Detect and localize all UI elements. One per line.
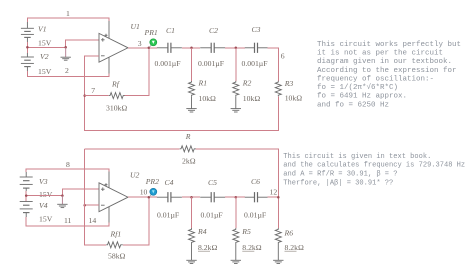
svg-text:C2: C2: [209, 26, 218, 35]
wire Rf1 vertical tap: [123, 197, 149, 245]
resistor R4: [189, 228, 195, 260]
node 3 junction dot: [148, 47, 151, 50]
resistor R1: [189, 81, 195, 109]
svg-text:fo = 1/(2π*√6*R*C): fo = 1/(2π*√6*R*C): [317, 82, 398, 92]
svg-text:This circuit is given in text: This circuit is given in text book.: [283, 153, 431, 161]
svg-text:R6: R6: [284, 229, 294, 238]
wire R2 top: [235, 48, 237, 81]
svg-text:11: 11: [64, 216, 72, 225]
svg-text:PR2: PR2: [145, 177, 159, 186]
svg-text:C5: C5: [208, 178, 217, 187]
svg-text:frequency of oscillation:-: frequency of oscillation:-: [317, 75, 434, 83]
svg-text:8.2kΩ: 8.2kΩ: [198, 243, 217, 252]
comment text block top: [317, 41, 461, 110]
battery V1: [21, 22, 34, 42]
capacitor C1: [157, 43, 182, 53]
svg-text:6: 6: [281, 52, 285, 61]
svg-text:V1: V1: [38, 25, 47, 34]
resistor Rf: [109, 93, 125, 99]
svg-text:0.01µF: 0.01µF: [201, 210, 223, 219]
svg-text:R1: R1: [198, 79, 208, 88]
svg-text:V4: V4: [39, 201, 48, 210]
svg-text:310kΩ: 310kΩ: [106, 103, 127, 112]
node 5 junction dot: [235, 47, 238, 50]
ground under R1: [186, 109, 196, 112]
svg-text:15V: 15V: [38, 67, 52, 76]
wire net 8 top rail: [26, 169, 109, 172]
wire R 2k top path: [85, 148, 180, 150]
svg-text:0.001µF: 0.001µF: [242, 59, 268, 68]
capacitor C5: [200, 192, 225, 202]
battery V3: [20, 172, 33, 191]
svg-text:8.2kΩ: 8.2kΩ: [242, 243, 261, 252]
svg-text:14: 14: [89, 216, 97, 225]
wire output U1: [128, 47, 157, 49]
svg-text:U2: U2: [130, 170, 140, 179]
svg-text:10: 10: [140, 188, 148, 197]
svg-text:0.001µF: 0.001µF: [198, 59, 224, 68]
node 12 junction dot: [277, 196, 280, 199]
svg-text:This circuit works perfectly b: This circuit works perfectly but: [317, 41, 461, 49]
wire ladder segment 1 bottom: [182, 196, 200, 198]
ground near U1: [61, 47, 71, 60]
ground under R5: [231, 260, 241, 263]
wire plus input U2: [62, 189, 99, 195]
svg-text:3: 3: [138, 39, 142, 48]
resistor R6: [275, 228, 281, 260]
svg-text:R3: R3: [284, 79, 294, 88]
wire R1 top: [191, 48, 193, 81]
wire inverting input U1: [85, 56, 279, 131]
probe PR1: [149, 39, 157, 48]
svg-text:12: 12: [270, 187, 278, 196]
resistor R5: [233, 228, 239, 260]
svg-text:C3: C3: [252, 25, 261, 34]
svg-text:and fo = 6250 Hz: and fo = 6250 Hz: [317, 101, 389, 109]
ground near U2: [57, 196, 67, 208]
comment text block bottom: [283, 153, 465, 187]
svg-text:10kΩ: 10kΩ: [243, 94, 261, 103]
wire Rf vertical tap: [125, 48, 149, 96]
node junction dot: [26, 46, 29, 49]
wire ladder to node 12: [268, 197, 279, 228]
node 4 junction dot: [190, 47, 193, 50]
wire ladder to node 6: [268, 48, 279, 81]
capacitor C3: [245, 43, 268, 53]
svg-text:R5: R5: [241, 227, 251, 236]
ground under R2: [231, 109, 241, 112]
svg-text:it is not as per the circuit: it is not as per the circuit: [317, 50, 443, 58]
svg-text:and the calculates frequency i: and the calculates frequency is 729.3748…: [283, 162, 465, 170]
node junction dot: [61, 194, 64, 197]
node junction dot: [25, 194, 28, 197]
svg-text:0.01µF: 0.01µF: [244, 210, 266, 219]
capacitor C2: [200, 43, 225, 53]
resistor Rf1: [106, 242, 123, 248]
svg-text:C1: C1: [166, 26, 175, 35]
wire Rf left: [85, 95, 109, 97]
svg-text:0.001µF: 0.001µF: [155, 59, 181, 68]
svg-text:2: 2: [65, 66, 69, 75]
wire R4 top: [191, 197, 193, 228]
wire net 11/14 bottom rail: [26, 217, 109, 226]
battery V4: [20, 202, 33, 218]
svg-text:8: 8: [66, 160, 70, 169]
svg-text:1: 1: [66, 9, 70, 18]
svg-text:R: R: [185, 132, 191, 141]
wire plus input U1: [66, 40, 100, 48]
wire battery mid bottom: [25, 191, 27, 202]
svg-text:V2: V2: [40, 52, 49, 61]
resistor R: [180, 146, 196, 152]
svg-text:R2: R2: [242, 79, 252, 88]
svg-text:8.2kΩ: 8.2kΩ: [285, 243, 304, 252]
wire ladder segment 2: [225, 47, 245, 49]
svg-text:15V: 15V: [39, 215, 53, 224]
node 10 junction dot: [148, 196, 151, 199]
probe PR2: [149, 188, 157, 197]
node junction dot inverting U2: [83, 204, 86, 207]
svg-text:and A = Rf/R = 30.91, β = ?: and A = Rf/R = 30.91, β = ?: [283, 171, 397, 179]
battery V2: [21, 53, 34, 71]
ground under R4: [186, 260, 196, 263]
svg-text:7: 7: [91, 86, 95, 95]
wire R5 top: [235, 197, 237, 228]
svg-text:C6: C6: [251, 177, 260, 186]
svg-text:V3: V3: [39, 177, 48, 186]
svg-text:Rf1: Rf1: [110, 230, 122, 239]
wire net 1 top rail: [27, 18, 109, 22]
svg-text:PR1: PR1: [144, 28, 158, 37]
node junction dot: [64, 46, 67, 49]
svg-text:10kΩ: 10kΩ: [285, 94, 303, 103]
svg-text:According to the expression fo: According to the expression for: [317, 67, 457, 75]
svg-text:58kΩ: 58kΩ: [108, 251, 126, 260]
wire ladder segment 1: [182, 47, 200, 49]
resistor R2: [233, 81, 239, 109]
op-amp U1: [99, 21, 128, 74]
wire inverting input U2: [85, 204, 99, 206]
svg-text:R4: R4: [197, 227, 207, 236]
svg-text:Therfore, |Aβ| = 30.91* ??: Therfore, |Aβ| = 30.91* ??: [283, 179, 393, 187]
svg-text:15V: 15V: [38, 39, 52, 48]
wire ladder segment 2 bottom: [225, 196, 245, 198]
wire net 2 bottom rail: [27, 71, 109, 77]
op-amp U2: [99, 172, 128, 223]
capacitor C4: [157, 192, 182, 202]
svg-text:0.01µF: 0.01µF: [157, 210, 179, 219]
node junction dot: [235, 196, 238, 199]
resistor R3: [275, 81, 281, 97]
svg-text:diagram given in our textbook.: diagram given in our textbook.: [317, 58, 452, 66]
wire feedback left vertical: [85, 149, 107, 245]
svg-text:U1: U1: [131, 22, 141, 31]
svg-text:10kΩ: 10kΩ: [199, 94, 217, 103]
node junction dot: [190, 196, 193, 199]
wire output U2: [128, 196, 157, 198]
ground under R6: [273, 260, 283, 263]
svg-text:fo = 6491 Hz approx.: fo = 6491 Hz approx.: [317, 93, 407, 101]
svg-text:2kΩ: 2kΩ: [182, 156, 196, 165]
svg-text:15V: 15V: [39, 190, 53, 199]
capacitor C6: [245, 192, 268, 202]
wire battery mid: [26, 42, 28, 53]
svg-text:C4: C4: [165, 178, 174, 187]
node 7 junction dot: [83, 94, 86, 97]
